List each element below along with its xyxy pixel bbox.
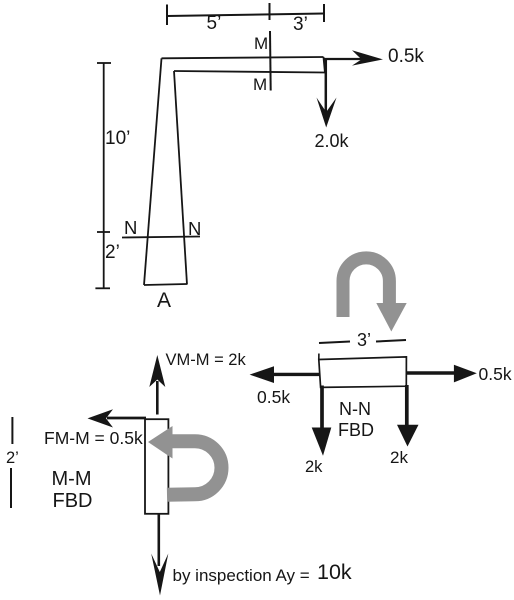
frame member: column left edge bbox=[144, 58, 162, 285]
label 2k (N-N FBD left) bbox=[305, 459, 322, 476]
label by inspection Ay = bbox=[173, 567, 310, 584]
dimension line 10'+2' (left) bbox=[95, 63, 111, 288]
section line M-M bbox=[269, 31, 272, 91]
force arrow 0.5k left (N-N FBD) bbox=[250, 366, 320, 383]
beam segment rectangle (N-N FBD) bbox=[319, 357, 407, 388]
dimension 3' (N-N FBD) bbox=[319, 342, 350, 344]
label 2k (N-N FBD right) bbox=[390, 449, 408, 466]
force arrow VM-M (up, M-M FBD) bbox=[149, 355, 165, 415]
force arrow 0.5k right (N-N FBD) bbox=[406, 365, 477, 383]
label VM-M = 2k bbox=[166, 352, 246, 369]
label 2.0k bbox=[315, 132, 349, 150]
force arrow 2k left (N-N FBD) bbox=[312, 386, 332, 456]
dimension 2' (M-M FBD) bbox=[11, 417, 13, 444]
force arrow 2k right (N-N FBD) bbox=[397, 385, 419, 447]
label N-N bbox=[339, 400, 371, 418]
label FBD (M-M FBD) bbox=[53, 491, 93, 511]
column segment rectangle (M-M FBD) bbox=[145, 419, 168, 514]
force arrow 2.0k bbox=[317, 60, 337, 128]
moment arrow (gray, M-M FBD) bbox=[148, 426, 221, 495]
label 2' (frame) bbox=[105, 243, 120, 262]
moment arrow (gray, N-N FBD) bbox=[343, 258, 407, 332]
label 3' (top dimension) bbox=[293, 15, 308, 34]
frame member: beam bottom chord bbox=[174, 71, 325, 73]
label 3' (N-N FBD) bbox=[357, 331, 371, 349]
label 0.5k (N-N FBD right) bbox=[479, 366, 512, 384]
label A (support) bbox=[157, 290, 171, 311]
beam segment rectangle left-edge overshoot tick bbox=[318, 354, 320, 361]
frame member: column right edge bbox=[174, 71, 187, 285]
label M (top) bbox=[254, 35, 268, 52]
section line N-N bbox=[122, 237, 200, 238]
frame member: beam top chord bbox=[162, 57, 324, 58]
label 5' bbox=[207, 14, 222, 33]
label M (bottom) bbox=[253, 76, 267, 93]
dimension line 5'+3' (top) bbox=[167, 3, 324, 25]
label N (right) bbox=[188, 220, 201, 239]
label 2' (M-M FBD) bbox=[6, 450, 19, 467]
label 10k bbox=[317, 562, 352, 584]
label FM-M = 0.5k bbox=[44, 430, 143, 448]
force arrow Ay (down, M-M FBD) bbox=[151, 515, 168, 596]
frame member: beam right edge bbox=[324, 57, 326, 73]
frame member: column base bbox=[144, 284, 187, 285]
label 10' bbox=[105, 129, 130, 148]
force arrow 0.5k (top of frame) bbox=[324, 50, 383, 65]
force arrow FM-M (left, M-M FBD) bbox=[88, 409, 147, 427]
label M-M (M-M FBD) bbox=[52, 469, 92, 489]
label 0.5k (top) bbox=[388, 47, 424, 66]
label N (left) bbox=[124, 219, 137, 238]
label FBD (N-N FBD) bbox=[338, 421, 374, 439]
label 0.5k (N-N FBD left) bbox=[257, 389, 290, 407]
